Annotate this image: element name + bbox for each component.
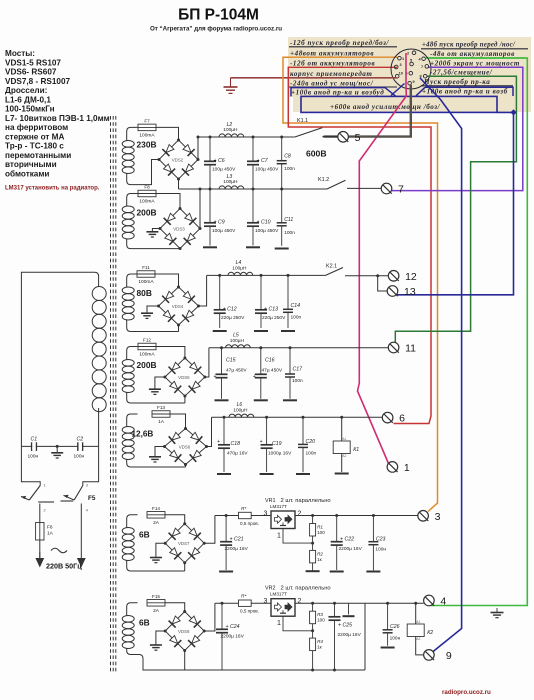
svg-text:C11: C11 [284,217,293,223]
svg-text:+48вот аккумуляторов: +48вот аккумуляторов [290,50,374,58]
svg-text:100µ 450V: 100µ 450V [255,228,279,234]
bridge rectifier VDS5 [163,357,206,398]
svg-text:L5: L5 [233,333,239,339]
wire bridge right to bus 1 [197,137,199,160]
svg-text:100µ 450V: 100µ 450V [255,166,279,172]
output terminal 3 [418,511,441,523]
svg-text:+200б экран ус мощност: +200б экран ус мощност [430,60,520,68]
wire bridge left to ground [156,543,165,557]
svg-text:220µ 250V: 220µ 250V [262,315,286,321]
svg-text:radiopro.ucoz.ru: radiopro.ucoz.ru [442,689,491,696]
svg-text:100н: 100н [375,547,386,553]
capacitor C10 [247,189,279,246]
switch F5 pole 2 [61,484,96,559]
svg-text:200В: 200В [137,208,157,218]
wire корпус to chassis ground (dark red) [231,77,398,79]
svg-text:VDS4: VDS4 [172,304,184,309]
svg-text:5: 5 [410,59,412,63]
svg-text:100µН: 100µН [230,338,245,344]
svg-text:-27,5б/смещение/: -27,5б/смещение/ [430,69,493,77]
wire +600В to pin junction [497,111,514,113]
svg-text:100n: 100n [306,451,317,457]
svg-text:F14: F14 [152,506,160,511]
fuse F7 [138,118,156,138]
svg-text:3: 3 [264,598,268,605]
svg-text:2: 2 [407,52,409,56]
svg-text:100н: 100н [74,454,85,460]
svg-text:F15: F15 [152,594,160,599]
svg-text:9: 9 [413,80,415,84]
VR2 adj wire [312,624,314,631]
output terminal 13 [387,286,416,298]
bridge rectifier VDS2 [158,139,200,181]
capacitor C21 [220,516,249,571]
transformer secondary winding T1 sec 1 (230В) [122,127,137,184]
wire left mains leg [21,446,40,485]
wire bridge right to mid bus [199,189,201,229]
svg-text:C14: C14 [291,303,301,309]
chassis ground symbol (top) [224,78,238,94]
svg-text:VDS2: VDS2 [172,157,184,162]
svg-text:Пуск преобр пр-ка: Пуск преобр пр-ка [423,78,490,86]
svg-text:100µ 450V: 100µ 450V [212,228,236,234]
mains arrow left [35,558,44,568]
svg-text:100н: 100н [28,454,39,460]
svg-text:обмотками: обмотками [5,168,49,178]
svg-text:3: 3 [400,63,402,67]
transformer primary winding [21,272,106,446]
svg-text:-240в анод ус мощ/нос/: -240в анод ус мощ/нос/ [290,80,374,88]
svg-text:A1: A1 [342,437,346,441]
switch contact K2.1 [326,264,344,276]
svg-text:7: 7 [398,184,404,196]
wire magenta -12В пуск to terminal 1 [358,53,407,464]
bus row 5 (12,6В) to terminal 6 [212,416,383,418]
svg-text:100n: 100n [291,315,302,321]
wire relay K1 to ground bar [341,454,343,473]
capacitor C17 [285,348,303,399]
svg-text:6В: 6В [139,618,150,628]
svg-text:3: 3 [435,511,441,523]
svg-text:4: 4 [86,509,88,513]
transformer core [110,116,112,674]
svg-text:100: 100 [317,618,325,623]
capacitor C12 [214,275,245,328]
svg-text:100mA: 100mA [138,279,154,285]
svg-text:+ C12: + C12 [223,306,237,312]
wire bridge left to ground [155,447,165,457]
svg-text:K2.1: K2.1 [326,264,337,270]
wire navy пуск преобр to terminal 9 [420,78,462,652]
svg-text:K1.1: K1.1 [297,118,308,124]
svg-text:LM317T: LM317T [270,592,287,597]
wire loop around +100В анод пр-ка и возбуд (left) [291,88,396,97]
resistor R3 [311,602,314,605]
transformer secondary winding T1 sec 7 (6В) [122,603,137,655]
capacitor C8 [277,137,296,189]
svg-text:VDS3: VDS3 [173,226,185,231]
svg-text:VDS8: VDS8 [178,629,190,634]
ground row 4 [149,388,161,390]
wire fuse to bridge top [156,194,180,209]
resistor R1 [310,524,326,537]
wire to relay K2 [414,602,417,605]
svg-text:R2: R2 [317,551,323,556]
svg-text:+ C13: + C13 [264,306,278,312]
ground row 5 [149,456,161,458]
svg-text:100mA: 100mA [139,133,155,139]
output terminal 6 [382,412,405,424]
svg-text:F5: F5 [88,495,96,502]
svg-text:R*: R* [241,506,246,512]
svg-text:L7- 10витков ПЭВ-1 1,0мм: L7- 10витков ПЭВ-1 1,0мм [5,114,110,123]
svg-text:Мосты:: Мосты: [5,49,35,58]
svg-text:220µ 250V: 220µ 250V [221,315,245,321]
wire chassis thick line pin 8 to terminal 5 [324,85,411,137]
capacitor C15 [216,348,248,399]
svg-text:C17: C17 [293,367,304,373]
svg-text:+600в анод усилит.мощн /боз/: +600в анод усилит.мощн /боз/ [330,103,441,111]
capacitor C16 [255,348,283,399]
wire fuse to bridge top [156,347,185,359]
svg-text:A2: A2 [342,454,346,458]
svg-text:F11: F11 [142,265,150,270]
capacitor C24 [216,603,245,670]
svg-text:+100в анод пр-ка и возбуд: +100в анод пр-ка и возбуд [291,89,384,97]
svg-text:100n: 100n [284,230,295,236]
capacitor C9 [204,189,236,246]
transformer secondary winding T1 sec 6 (6В) [122,515,137,571]
svg-text:K1.2: K1.2 [318,177,329,183]
svg-text:100: 100 [317,530,325,535]
resistor R* (0,5 пров) [239,506,259,526]
svg-text:К2: К2 [427,630,433,636]
ground row 2 [146,231,158,233]
svg-text:L4: L4 [236,260,242,266]
svg-text:100н: 100н [390,636,401,642]
svg-text:1000µ 16V: 1000µ 16V [268,451,292,457]
svg-text:+ С22: + С22 [340,537,354,543]
svg-text:2А: 2А [153,608,160,614]
svg-text:2 шт. параллельно: 2 шт. параллельно [281,498,331,504]
svg-text:-12б пуск преобр перед/боз/: -12б пуск преобр перед/боз/ [290,39,389,47]
svg-text:L2: L2 [227,122,233,128]
svg-text:От “Агрегата” для форума radi: От “Агрегата” для форума radiopro.ucoz.r… [150,26,282,33]
R2 to ground bar [312,563,314,571]
svg-text:+48б пуск преобр перед /нос/: +48б пуск преобр перед /нос/ [422,42,516,49]
svg-text:100µ 450V: 100µ 450V [212,166,236,172]
resistor R3 [310,611,326,624]
wire right mains leg [83,446,99,485]
wire switch to terminal 12 [345,275,388,277]
svg-text:VDS6: VDS6 [179,444,191,449]
svg-text:F7: F7 [144,118,150,123]
svg-text:+ С25: + С25 [338,623,352,629]
connector X1 (10-pin circular) [391,49,431,89]
svg-text:+: + [253,374,256,380]
wire winding bottom to rail [138,655,366,671]
output terminal 12 [388,271,417,283]
svg-text:47µ 450V: 47µ 450V [226,368,247,374]
svg-text:11: 11 [405,343,416,355]
svg-text:C8: C8 [284,154,291,160]
resistor R2 [312,543,314,550]
wire navy +100В/+600В to terminal 13 [397,112,514,294]
svg-text:2200µ 16V: 2200µ 16V [225,546,249,552]
wire bridge bottom to mid bus [178,179,180,189]
bus row 3 (80В) [207,274,326,276]
capacitor C1 [28,437,39,460]
wire dark green -27,5В to terminal 11 [395,76,516,342]
svg-text:A1: A1 [416,620,420,624]
svg-text:C19: C19 [272,441,282,447]
svg-text:VDS6- RS607: VDS6- RS607 [5,68,57,77]
svg-text:100µН: 100µН [232,266,247,272]
svg-text:100µН: 100µН [223,179,238,185]
svg-text:+ C7: + C7 [257,158,269,164]
svg-text:вторичными: вторичными [5,160,57,169]
svg-text:230В: 230В [137,140,157,150]
ground between C1 and C2 [56,445,59,448]
svg-text:корпус приемопередат: корпус приемопередат [290,70,372,78]
capacitor C22 [331,516,363,571]
svg-text:2А: 2А [153,520,160,526]
inductor L3 [219,174,244,189]
capacitor C23 [368,516,386,571]
capacitor C19 [261,417,293,472]
svg-text:стержне от МА: стержне от МА [5,132,64,141]
parts list text block [5,49,110,178]
svg-text:A2: A2 [416,637,420,641]
svg-text:100mA: 100mA [139,199,155,205]
svg-text:1: 1 [404,462,410,474]
inductor L5 [226,333,251,348]
svg-text:1: 1 [44,484,46,488]
resistor R2 [310,550,324,563]
svg-text:7: 7 [421,65,423,69]
svg-text:100-150мкГн: 100-150мкГн [5,105,55,114]
svg-text:1: 1 [277,620,281,627]
bridge rectifier VDS8 [164,610,206,652]
wire bridge left to ground [155,377,165,389]
svg-text:1А: 1А [158,419,165,425]
svg-text:220В 50Гц: 220В 50Гц [46,562,82,571]
svg-text:2: 2 [44,509,46,513]
svg-text:C20: C20 [306,439,316,445]
relay coil К1 [333,437,359,458]
output terminal 11 [388,342,416,354]
ground row 3 [141,312,153,314]
svg-text:-12б от аккумуляторов: -12б от аккумуляторов [290,60,375,68]
svg-text:R1: R1 [317,525,323,530]
wire R* to VR1 [251,515,271,517]
wire winding bottom to bridge bottom [138,331,179,333]
svg-text:R3: R3 [317,612,323,617]
wire mains top rail [21,445,98,447]
svg-text:+: + [260,439,263,445]
svg-text:2: 2 [298,511,302,518]
svg-text:F8: F8 [144,185,150,190]
output terminal 4 [424,595,447,607]
svg-text:VDS7: VDS7 [178,541,190,546]
svg-text:VDS5: VDS5 [178,375,190,380]
wire bridge bottom to rail [184,651,186,671]
resistor R4 [310,638,324,651]
svg-text:100mA: 100mA [139,352,155,358]
bus row 7 input segment [215,602,239,604]
ground row 6 [150,557,162,559]
svg-text:600В: 600В [306,149,327,159]
wire bright green -48В to terminal 4 [429,58,527,606]
svg-text:LM317 установить на радиатор.: LM317 установить на радиатор. [5,186,100,192]
bus row 6 output to terminal 3 [295,515,418,517]
svg-text:F12: F12 [143,338,151,343]
svg-text:80В: 80В [137,288,152,298]
wire loop around +100В анод пр-ка и возб (right) [416,87,425,96]
transformer secondary winding T1 sec 2 (200В) [122,194,137,249]
svg-text:C18: C18 [231,441,241,447]
svg-text:10: 10 [399,71,403,75]
wire bridge left to ground [152,229,160,232]
svg-text:F13: F13 [157,405,165,410]
wire bridge left to ground [147,306,159,313]
output terminal 9 [424,650,452,662]
svg-text:С23: С23 [376,537,386,543]
svg-text:2200µ 16V: 2200µ 16V [339,546,363,552]
svg-text:C1: C1 [31,437,38,443]
wire bridge left to ground [156,631,165,645]
svg-text:C15: C15 [226,358,236,364]
bus row 7 output to terminal 4 [295,602,424,604]
switch contact K1.1 [295,118,323,137]
wire relay K2 to terminal 9 [416,637,423,655]
svg-text:0,5 пров.: 0,5 пров. [240,609,259,614]
wire winding bottom to bridge bottom [138,248,181,250]
bridge rectifier VDS6 [163,427,208,466]
svg-text:C16: C16 [265,358,275,364]
svg-text:+ C6: + C6 [214,158,225,164]
mid bus (row1 return / row2 out) [179,188,328,190]
svg-text:Тр-р - ТС-180 с: Тр-р - ТС-180 с [5,142,64,151]
svg-text:+ C9: + C9 [214,219,225,225]
svg-text:+ С21: + С21 [230,537,244,543]
svg-text:LM317T: LM317T [270,504,287,509]
relay coil К2 [407,620,433,641]
wire box around +600В анод усилит мощн [301,96,497,112]
capacitor C25 [329,603,362,670]
wire fuse to bridge top [170,414,186,429]
svg-text:12: 12 [405,271,417,283]
svg-text:6: 6 [399,413,405,425]
fuse F12 [138,338,156,358]
svg-text:+: + [217,439,220,445]
ground right of terminal 4 [496,608,498,612]
svg-text:C2: C2 [77,437,84,443]
AC symbol [51,548,67,553]
capacitor C2 [74,437,85,460]
resistor R* (0,5 пров) row 7 [239,594,259,614]
svg-text:1А: 1А [47,531,54,537]
svg-text:+ С24: + С24 [226,624,240,630]
wire switch to terminal 5 [323,136,338,138]
svg-text:F6: F6 [47,525,53,531]
capacitor C13 [255,275,286,328]
bridge rectifier VDS7 [164,522,206,564]
svg-text:2200µ 16V: 2200µ 16V [338,632,362,638]
svg-text:на ферритовом: на ферритовом [5,123,68,132]
fuse F14 [147,506,165,526]
bus row 4 (200В) to terminal 11 [209,347,388,349]
svg-text:12,6В: 12,6В [132,430,154,439]
svg-text:БП Р-104М: БП Р-104М [178,7,259,24]
svg-text:100µН: 100µН [223,127,238,133]
svg-text:С26: С26 [390,624,400,630]
wire bridge right to bus 5 [207,417,212,446]
svg-text:L6: L6 [237,402,243,408]
voltage regulator VR2 LM317T [264,586,331,628]
wire bridge right to bus 4 [205,348,209,377]
fuse F8 [138,185,156,205]
svg-text:100n: 100n [292,378,303,384]
scanned pinout annotation background [288,37,531,112]
svg-text:перемотанными: перемотанными [5,151,71,160]
wire fuse to bridge top [165,515,185,523]
wire orange +48В to terminal 3 [283,57,438,511]
R4 to rail [312,651,314,670]
svg-text:2 шт. параллельно: 2 шт. параллельно [281,586,331,592]
fuse F11 [137,265,155,285]
svg-text:9: 9 [446,650,452,662]
svg-text:К1: К1 [353,447,359,453]
svg-text:13: 13 [404,286,416,298]
svg-text:200В: 200В [137,360,157,370]
ground row 7 [150,644,162,646]
bus row 1 (600В+) [198,136,295,138]
switch contact K1.2 [318,177,346,189]
fuse F13 [152,405,170,425]
svg-text:Дроссели:: Дроссели: [5,86,47,95]
resistor R4 [312,631,314,638]
capacitor C6 [204,137,236,189]
svg-text:2: 2 [298,598,302,605]
svg-text:3: 3 [86,484,88,488]
resistor R1 [311,514,314,517]
output terminal 5 [338,132,361,144]
switch F5 pole 1 [21,484,54,523]
svg-text:3: 3 [264,511,268,518]
transformer secondary winding T1 sec 4 (200В) [122,347,137,404]
svg-text:-48в от аккумуляторов: -48в от аккумуляторов [430,50,515,58]
inductor L2 [219,122,244,137]
wire winding bottom to bridge bottom [138,466,186,468]
svg-text:100µН: 100µН [233,407,248,413]
capacitor C18 [218,417,248,472]
svg-text:+ C10: + C10 [257,219,271,225]
svg-text:L1-6 ДМ-0,1: L1-6 ДМ-0,1 [5,95,51,104]
wire to terminal 13 [378,276,388,291]
rail riser to bus (row 7) [364,603,366,670]
svg-text:1: 1 [277,533,281,540]
wire to relay K1 [340,416,343,419]
svg-text:5: 5 [355,132,361,144]
bridge rectifier VDS4 [157,286,200,327]
svg-text:VDS7,8 - RS1007: VDS7,8 - RS1007 [5,77,71,86]
svg-text:47µ 450V: 47µ 450V [262,368,283,374]
svg-text:+: + [214,374,217,380]
wire navy pin stubs [391,84,405,96]
wire winding bottom to bridge bottom [138,402,185,404]
svg-text:L3: L3 [227,174,233,180]
